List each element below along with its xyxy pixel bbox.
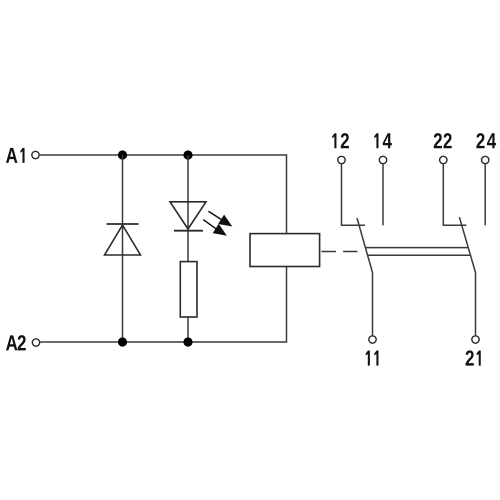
wire A2 to coil bottom — [41, 267, 287, 343]
terminal A2 — [32, 339, 39, 346]
label 12 — [332, 133, 349, 148]
terminal 24 — [482, 156, 489, 163]
terminal 22 — [440, 156, 447, 163]
terminal 11 — [369, 336, 376, 343]
wire A1 to coil top — [40, 155, 287, 234]
label A1 — [6, 148, 25, 163]
mechanical linkage dashed line — [322, 251, 359, 253]
diode V1 cathode bar — [107, 223, 139, 225]
terminal 12 — [338, 156, 345, 163]
node junction A1-diode — [118, 150, 127, 159]
node junction A2-diode — [118, 337, 127, 346]
terminal 14 — [379, 156, 386, 163]
LED arrow 1 — [208, 211, 231, 226]
relay coil K1 — [250, 234, 320, 267]
label 24 — [476, 133, 496, 148]
wire LED branch upper — [187, 155, 189, 262]
label 21 — [466, 350, 481, 365]
label 11 — [366, 351, 379, 366]
label 14 — [374, 133, 392, 148]
contact arm 21 — [459, 217, 475, 335]
wire diode branch — [122, 155, 124, 342]
linkage bar upper line — [365, 247, 468, 249]
node junction A1-LED — [183, 150, 192, 159]
label 22 — [434, 133, 452, 148]
wire terminal 14 NO contact — [382, 164, 384, 225]
wire terminal 12 NC contact — [342, 164, 366, 225]
wire terminal 22 NC contact — [443, 164, 466, 225]
LED D1 cathode bar — [174, 230, 203, 232]
wire resistor to A2 line — [187, 317, 189, 342]
LED arrow 2 — [203, 220, 226, 235]
resistor R1 — [180, 262, 197, 317]
node junction A2-LED — [183, 337, 192, 346]
linkage bar lower line — [368, 254, 471, 256]
wire terminal 24 NO contact — [484, 164, 486, 225]
contact arm 11 — [357, 218, 373, 335]
terminal A1 — [32, 151, 39, 158]
diode V1 — [105, 225, 141, 255]
label A2 — [6, 335, 26, 350]
terminal 21 — [472, 336, 479, 343]
LED D1 — [170, 202, 206, 229]
